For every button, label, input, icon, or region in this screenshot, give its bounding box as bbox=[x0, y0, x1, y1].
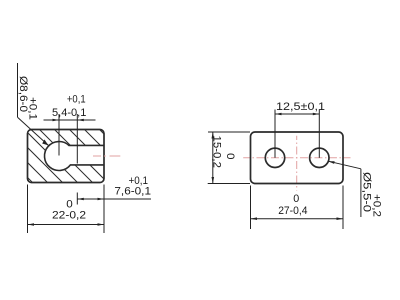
svg-text:12,5±0,1: 12,5±0,1 bbox=[276, 101, 325, 113]
extension lines for 15 bbox=[208, 131, 250, 133]
svg-text:+0,2: +0,2 bbox=[371, 194, 383, 217]
svg-text:15-0,2: 15-0,2 bbox=[211, 136, 223, 169]
part outline bbox=[251, 132, 344, 184]
svg-text:+0,1: +0,1 bbox=[27, 97, 39, 120]
extension lines from hole centers bbox=[274, 110, 276, 158]
leader for diameter 5,5 bbox=[328, 161, 361, 169]
svg-text:0: 0 bbox=[66, 198, 73, 210]
right extension line (7,6 / 22) bbox=[103, 185, 105, 234]
extension tick below for 7,6 bbox=[76, 193, 78, 205]
keyhole slot outline bbox=[45, 141, 104, 170]
left view: part outline bbox=[28, 130, 105, 183]
dimension 5,4 line bbox=[44, 119, 96, 121]
extension line at slot step bbox=[76, 114, 78, 164]
svg-text:22-0,2: 22-0,2 bbox=[52, 210, 86, 222]
svg-text:27-0,4: 27-0,4 bbox=[278, 205, 307, 217]
dimension 12,5 line bbox=[275, 113, 319, 115]
svg-text:5,4-0,1: 5,4-0,1 bbox=[52, 107, 86, 119]
svg-text:+0,1: +0,1 bbox=[67, 94, 86, 106]
left extension line (22) bbox=[27, 185, 29, 234]
svg-text:7,6-0,1: 7,6-0,1 bbox=[114, 186, 151, 198]
svg-text:+0,1: +0,1 bbox=[129, 175, 149, 187]
keyhole slot cutout (white) bbox=[45, 141, 104, 170]
svg-text:0: 0 bbox=[224, 153, 236, 160]
hole left bbox=[265, 148, 284, 167]
dimension 22 line bbox=[28, 224, 105, 226]
dimension 7,6 line bbox=[77, 198, 151, 200]
extension lines for 27 bbox=[250, 186, 252, 230]
hole right bbox=[310, 148, 329, 167]
dimension 15 line bbox=[212, 132, 214, 184]
left view: red centerline bbox=[93, 155, 120, 157]
extension line at circle center bbox=[58, 114, 60, 156]
svg-text:0: 0 bbox=[293, 193, 299, 205]
left view: section hatching bbox=[0, 125, 157, 187]
red centerlines bbox=[243, 157, 350, 159]
dimension 27 line bbox=[251, 218, 344, 220]
leader for diameter 8,6 bbox=[17, 63, 19, 117]
